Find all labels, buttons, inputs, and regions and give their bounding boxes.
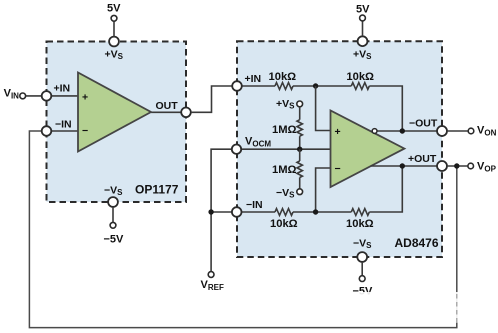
wire: junction to -IN pin (211, 211, 232, 213)
svg-text:OP1177: OP1177 (135, 183, 179, 197)
pin +OUT AD8476 (437, 161, 447, 171)
svg-text:+IN: +IN (245, 73, 262, 85)
wire: 5V to +VS (AD8476) (362, 21, 364, 36)
power +VS pin OP1177 (109, 37, 119, 47)
svg-text:5V: 5V (356, 3, 370, 15)
resistor 10k (input bottom) (275, 209, 293, 216)
op-amp U2 AD8476 triangle (331, 111, 405, 188)
terminal -VS (1M divider bottom) (297, 189, 303, 195)
wire: +IN pin to op-amp (51, 95, 78, 97)
wire: feedback bottom to +OUT node (369, 166, 402, 212)
wire: +IN to first 10k resistor (242, 85, 276, 87)
OP1177 dashed block (47, 42, 187, 203)
wire: VOCM node to 1M lower (299, 149, 301, 161)
wire: -IN to first 10k resistor (bottom) (242, 211, 276, 213)
wire: 1M to VOCM node (299, 136, 301, 149)
svg-text:+: + (82, 92, 88, 104)
wire: VIN to +IN (26, 95, 43, 97)
svg-text:−IN: −IN (246, 199, 263, 211)
junction VOP feedback node (454, 163, 459, 168)
wire: OUT to +IN of AD8476 (191, 86, 232, 112)
svg-text:10kΩ: 10kΩ (269, 71, 297, 83)
wire: 5V to +VS (113, 21, 115, 37)
faint feedback wire through watermark (456, 294, 458, 322)
wire: -OUT pin to VON (447, 130, 468, 132)
wire: resistor to node B (293, 211, 351, 213)
power -VS pin OP1177 (108, 197, 118, 207)
wire: node A down to amp + input (316, 86, 331, 131)
terminal -5V (AD8476) (359, 276, 365, 282)
resistor 10k (feedback top) (351, 83, 369, 90)
svg-text:−: − (335, 163, 341, 175)
resistor 10k (input top) (275, 83, 293, 90)
pin +IN OP1177 (42, 91, 52, 101)
svg-text:−IN: −IN (55, 119, 72, 131)
pin VOCM AD8476 (232, 145, 241, 154)
wire: +OUT pin to VOP (447, 165, 468, 167)
wire: resistor to node A (293, 85, 351, 87)
junction +OUT node (400, 163, 405, 168)
svg-text:+IN: +IN (54, 83, 71, 95)
wire: VREF riser to VOCM and -IN (211, 149, 236, 271)
svg-text:AD8476: AD8476 (395, 236, 439, 250)
svg-text:+OUT: +OUT (408, 153, 437, 165)
power -VS pin AD8476 (357, 252, 367, 262)
wire: feedback top to -OUT node (369, 86, 402, 131)
svg-text:1MΩ: 1MΩ (272, 124, 297, 136)
wire: -VS to -5V (AD8476) (361, 262, 363, 276)
junction VOCM node (297, 147, 302, 152)
pin -IN OP1177 (42, 126, 52, 136)
wire: -OUT from bubble to pin (377, 130, 437, 132)
wire: -IN pin to op-amp (51, 130, 79, 132)
junction node A (top summing) (313, 83, 318, 88)
terminal VREF (208, 272, 214, 278)
terminal -5V (110, 222, 116, 228)
wire: VOCM to amp (242, 148, 331, 150)
svg-text:+: + (335, 126, 341, 138)
svg-text:−OUT: −OUT (409, 118, 438, 130)
resistor 1M (upper) (297, 120, 302, 137)
svg-text:OUT: OUT (156, 100, 179, 112)
terminal VON (468, 128, 474, 134)
svg-text:−5V: −5V (104, 234, 125, 246)
op-amp U1 OP1177 triangle (78, 73, 151, 152)
svg-text:10kΩ: 10kΩ (270, 218, 298, 230)
watermark overlay bottom right (340, 292, 498, 323)
terminal VOP (468, 163, 474, 169)
svg-text:10kΩ: 10kΩ (346, 71, 374, 83)
terminal 5V (111, 15, 117, 21)
pin -IN AD8476 (232, 207, 242, 217)
wire: feedback loop VOP to -IN of OP1177 (29, 131, 456, 328)
wire: node B up to amp - input (316, 168, 331, 212)
wire: -VS to -5V (112, 207, 114, 223)
wire: 1M lower to -VS (299, 178, 301, 189)
AD8476 dashed block (237, 41, 442, 257)
wire: op-amp output to OUT pin (151, 111, 186, 113)
junction -OUT node (400, 128, 405, 133)
wire: +OUT to pin (371, 165, 438, 167)
svg-text:10kΩ: 10kΩ (346, 218, 374, 230)
svg-text:1MΩ: 1MΩ (272, 164, 297, 176)
wire: +VS to 1M (299, 107, 301, 120)
junction VREF node (208, 209, 213, 214)
pin +IN AD8476 (232, 81, 242, 91)
pin OUT OP1177 (181, 108, 191, 118)
resistor 10k (feedback bottom) (351, 209, 369, 216)
svg-text:−: − (82, 125, 88, 137)
pin -OUT AD8476 (437, 126, 447, 136)
junction node B (bottom summing) (313, 209, 318, 214)
inversion bubble (372, 129, 377, 134)
power +VS pin AD8476 (358, 36, 368, 46)
resistor 1M (lower) (297, 161, 302, 178)
svg-text:5V: 5V (107, 2, 121, 14)
terminal +VS (1M divider top) (297, 101, 303, 107)
terminal 5V (AD8476) (360, 15, 366, 21)
terminal VIN (20, 93, 26, 99)
